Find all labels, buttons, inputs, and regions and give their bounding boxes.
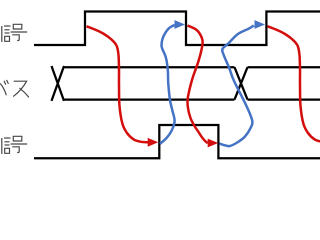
label ス (middle) — [14, 81, 29, 97]
wire: bus bottom line segment 1 — [63, 98, 235, 100]
arrow red 3 curve (exits right edge) — [268, 26, 320, 142]
wire: bus X2 crossing — [235, 67, 248, 99]
label 信 fragment (bottom, cut) — [2, 138, 11, 154]
arrow blue 2 curve — [220, 25, 254, 146]
wire: top signal waveform — [34, 12, 320, 46]
wire: bus bottom line segment 2 — [248, 98, 320, 100]
wire: bus top line segment 2 — [248, 66, 320, 68]
wire: bottom signal waveform — [34, 125, 320, 158]
arrow red 1 curve — [87, 26, 149, 142]
label 信号 (top, partially cut) — [2, 26, 11, 42]
arrow blue 1 head — [175, 20, 186, 29]
arrow blue 2 head — [255, 20, 266, 29]
wire: bus X1 crossing — [52, 66, 65, 101]
arrow red 2 curve — [187, 26, 207, 144]
arrow red 1 head — [148, 138, 159, 147]
arrow blue 1 curve — [160, 25, 175, 144]
label 号 (top) — [11, 24, 28, 40]
label バ fragment (middle, cut) — [1, 80, 9, 94]
arrow red 2 head — [208, 139, 219, 148]
label 号 (bottom) — [11, 136, 28, 152]
wire: bus top line segment 1 — [63, 66, 235, 68]
